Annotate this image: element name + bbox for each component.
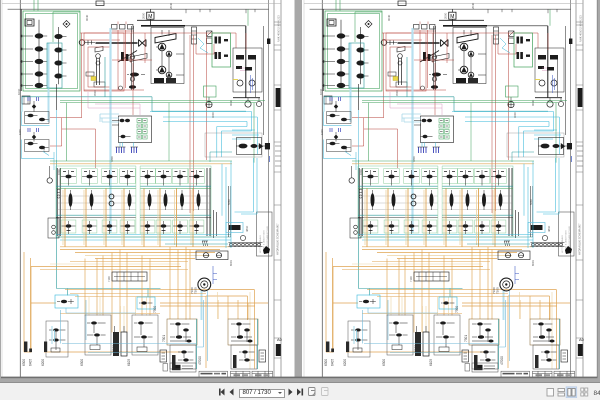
nav next icon [289,389,293,396]
prev view icon [309,388,316,396]
nav first-page icon [221,389,225,396]
single page layout icon [547,389,554,397]
two-page layout icon active [566,387,577,398]
page bottom shadow line [1,377,598,379]
page 2 [302,0,598,377]
page number box [239,389,285,399]
nav prev icon [230,389,234,396]
page 1 [0,0,296,377]
continuous layout icon [558,389,565,397]
svg-text:84: 84 [594,390,600,397]
next view icon disabled [322,388,329,396]
two-page continuous icon [581,388,588,396]
nav last-page icon [297,389,301,396]
